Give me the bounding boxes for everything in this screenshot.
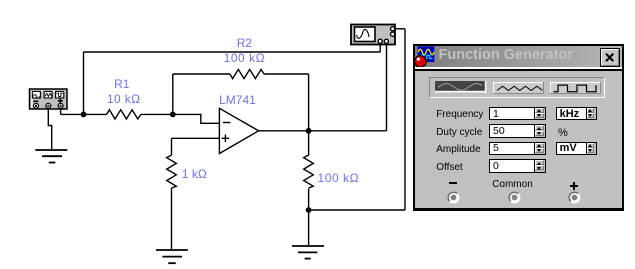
close button [600, 48, 620, 68]
wire: 1 kohm to ground [171, 188, 173, 250]
oscilloscope instrument icon XSC1 [351, 25, 395, 45]
scope terminal B (bottom right) [384, 39, 388, 43]
duty cycle value field with spinner [489, 124, 546, 138]
frequency value field with spinner [489, 107, 546, 121]
op-amp U1 LM741 triangle [219, 108, 258, 153]
output node junction dot [306, 128, 312, 134]
triangle wave button [493, 82, 544, 95]
wire: node A up to top rail [83, 52, 85, 114]
node B junction dot [170, 112, 176, 118]
wire: R1 to node B [141, 113, 173, 115]
label Duty cycle [436, 128, 482, 138]
wire: load resistor to ground node [308, 189, 310, 211]
function generator instrument icon XFG1 [30, 89, 68, 109]
wire: feedback down to output node [308, 74, 310, 131]
Function Generator dialog window [413, 44, 624, 211]
square wave button [550, 82, 601, 95]
wire: into scope right terminal [396, 28, 405, 30]
wire: FG plus terminal down [60, 108, 62, 114]
wire: ground node right to scope ground riser [309, 209, 405, 211]
common output label [492, 180, 533, 190]
wire: up into scope terminal A [379, 45, 381, 52]
node A junction dot [81, 112, 87, 118]
wire: riser up to scope G terminal [404, 29, 406, 210]
amplitude value field with spinner [489, 142, 546, 156]
wire: top rail to scope input A [84, 51, 381, 53]
plus terminal [568, 191, 581, 204]
resistor 1 kohm body (vertical) [167, 155, 177, 188]
wire: output node to scope B drop [309, 130, 387, 132]
label Amplitude [436, 145, 480, 155]
terminal common [46, 103, 51, 108]
scope screen with sine trace [355, 27, 376, 42]
wire: R2 to right corner [264, 73, 309, 75]
duty cycle percent sign [558, 128, 568, 138]
value label 100 kohm (load) [318, 172, 360, 184]
common terminal [508, 191, 521, 204]
op-amp minus sign [223, 122, 231, 124]
value label 100 kohm (R2) [224, 52, 266, 64]
op-amp plus sign [222, 135, 230, 143]
title bar icon (waveform + red ball) [413, 45, 445, 71]
ground (function generator common) [35, 150, 67, 163]
waveform selector panel [429, 77, 605, 98]
scope terminal T (right lower) [391, 32, 395, 36]
minus output label [449, 182, 457, 184]
resistor R2 body [230, 69, 264, 78]
wire: ground node down to ground [308, 210, 310, 246]
value label 10 kohm [107, 93, 140, 105]
plus polarity mark [58, 98, 63, 103]
wire: FG common to ground jog [48, 108, 51, 150]
wire: feedback rail to R2 [173, 73, 230, 75]
title text [439, 47, 574, 63]
wire: op-amp non-inverting input [172, 137, 220, 139]
wire: plus input down to 1 kohm resistor [171, 138, 173, 155]
ground (below 1 kohm) [156, 250, 188, 263]
wire: node B jog to op-amp inverting input [173, 114, 220, 123]
sine button on icon [32, 91, 40, 98]
wire: output node down to load resistor [308, 131, 310, 156]
wire: node B up to feedback rail [172, 74, 174, 114]
ground node junction dot [306, 207, 312, 213]
plus output label [570, 185, 578, 187]
wire: node A to R1 [84, 113, 107, 115]
resistor 100 kohm load body (vertical) [304, 155, 314, 188]
wire: up to scope terminal B [386, 45, 388, 131]
label LM741 [219, 94, 256, 106]
wire: op-amp output to output node [259, 130, 309, 132]
label R2 [237, 37, 252, 49]
scope terminal G (right upper) [391, 27, 395, 31]
terminal minus [34, 103, 39, 108]
label R1 [114, 78, 129, 90]
square button on icon [56, 91, 64, 98]
scope terminal A (bottom left) [378, 39, 382, 43]
triangle button on icon [44, 91, 52, 98]
amplitude unit selector mV [556, 142, 597, 156]
frequency unit selector kHz [556, 107, 597, 121]
separator line under title [415, 67, 622, 69]
minus terminal [447, 191, 460, 204]
value label 1 kohm [182, 168, 207, 180]
label Frequency [436, 110, 483, 120]
ground (below load resistor) [292, 246, 324, 259]
label Offset [436, 163, 463, 173]
offset value field with spinner [489, 159, 546, 173]
minus polarity mark [33, 100, 38, 102]
wire: FG plus to node A [61, 113, 84, 115]
terminal plus [58, 103, 63, 108]
resistor R1 body [107, 110, 141, 119]
title bar [415, 46, 622, 68]
sine wave button (selected) [435, 81, 487, 94]
